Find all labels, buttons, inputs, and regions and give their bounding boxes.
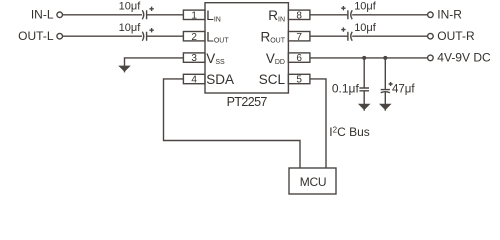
svg-text:6: 6 <box>296 53 302 64</box>
wire C2 to pin 2 <box>147 35 184 37</box>
svg-text:47μf: 47μf <box>392 83 415 95</box>
svg-text:OUT-L: OUT-L <box>18 29 54 43</box>
pin 5 box <box>288 74 310 83</box>
pin 4 box <box>183 74 205 83</box>
capacitor C2 10uf <box>142 32 146 41</box>
wire C6 branch down <box>384 58 386 90</box>
wire pin 3 VSS to ground <box>125 58 184 66</box>
terminal OUT-L <box>57 33 63 39</box>
wire OUT-L to C2 <box>63 35 143 37</box>
plus C6 <box>389 82 393 86</box>
svg-text:IN-R: IN-R <box>437 8 462 22</box>
capacitor C5 0.1uf <box>359 88 369 91</box>
pin 2 box <box>183 32 205 41</box>
svg-text:4V-9V DC: 4V-9V DC <box>437 51 491 65</box>
svg-text:10μf: 10μf <box>119 22 142 34</box>
svg-text:OUT-R: OUT-R <box>437 29 475 43</box>
ground C5 <box>360 105 369 111</box>
wire C1 to pin 1 <box>147 14 184 16</box>
svg-text:7: 7 <box>296 32 302 43</box>
svg-text:3: 3 <box>191 53 197 64</box>
plus C2 <box>149 28 153 32</box>
ground C6 <box>381 105 390 111</box>
svg-text:IN-L: IN-L <box>31 8 54 22</box>
terminal IN-L <box>57 12 63 18</box>
wire C4 to OUT-R <box>352 35 427 37</box>
wire pin 8 to C3 <box>310 14 348 16</box>
pin 3 box <box>183 53 205 62</box>
wire pin 7 to C4 <box>310 35 348 37</box>
IC U1 PT2257 body <box>205 3 288 93</box>
capacitor C1 10uf <box>142 10 146 19</box>
wire C6 to ground <box>384 92 386 104</box>
junction dot VDD/C5 <box>362 56 366 60</box>
svg-text:4: 4 <box>191 75 197 86</box>
svg-text:SDA: SDA <box>206 72 234 87</box>
pin 7 box <box>288 32 310 41</box>
svg-text:MCU: MCU <box>300 175 326 189</box>
MCU box <box>289 168 336 194</box>
wire SCL pin 5 to MCU <box>310 79 326 168</box>
capacitor C3 10uf <box>348 10 352 19</box>
svg-text:SCL: SCL <box>259 72 286 87</box>
wire pin 6 VDD to 4V-9V DC <box>310 57 428 59</box>
wire IN-L to C1 <box>63 14 143 16</box>
svg-text:5: 5 <box>296 75 302 86</box>
svg-text:0.1μf: 0.1μf <box>332 81 360 95</box>
pin 1 box <box>183 10 205 19</box>
svg-text:10μf: 10μf <box>119 0 142 12</box>
pin 8 box <box>288 10 310 19</box>
capacitor C4 10uf <box>348 32 352 41</box>
terminal IN-R <box>428 12 434 18</box>
wire C3 to IN-R <box>352 14 427 16</box>
svg-text:I2C Bus: I2C Bus <box>329 125 369 139</box>
svg-text:8: 8 <box>296 10 302 21</box>
terminal OUT-R <box>428 33 434 39</box>
svg-text:10μf: 10μf <box>354 22 377 34</box>
terminal 4V-9V DC <box>428 55 434 61</box>
ground VSS <box>120 66 129 72</box>
svg-text:PT2257: PT2257 <box>227 95 268 109</box>
svg-text:1: 1 <box>191 10 197 21</box>
junction dot VDD/C6 <box>383 56 387 60</box>
wire C5 branch down <box>363 58 365 88</box>
plus C3 <box>341 6 345 10</box>
plus C4 <box>341 27 345 31</box>
svg-text:2: 2 <box>191 32 197 43</box>
pin 6 box <box>288 53 310 62</box>
svg-text:10μf: 10μf <box>354 0 377 12</box>
wire SDA pin 4 to MCU <box>164 79 301 168</box>
wire C5 to ground <box>363 91 365 105</box>
plus C1 <box>149 7 153 11</box>
capacitor C6 47uf <box>381 90 390 93</box>
